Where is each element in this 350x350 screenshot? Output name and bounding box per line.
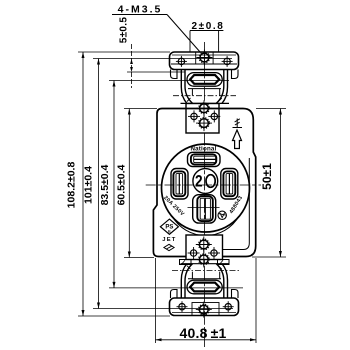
top obround mounting hole inner <box>190 75 219 84</box>
svg-text:108.2±0.8: 108.2±0.8 <box>66 162 78 209</box>
svg-text:2: 2 <box>195 172 203 191</box>
strap end tab right <box>232 70 239 79</box>
top terminal block <box>186 104 219 134</box>
bottom strap end tab right <box>232 290 239 299</box>
dim 40.8±1 bottom <box>156 258 257 343</box>
right slot outer <box>221 169 238 200</box>
top strap screw 4-M3.5 <box>196 50 212 66</box>
bottom obround mounting hole inner <box>190 283 219 292</box>
bottom obround verticals right <box>219 272 221 279</box>
left slot middle <box>173 171 185 196</box>
PSE diamond <box>160 219 178 234</box>
leader underline 2±0.8 <box>190 30 223 32</box>
top slot inner <box>194 156 216 162</box>
leader line to screw <box>167 15 201 53</box>
strap inner top line <box>172 54 236 56</box>
left slot inner <box>176 174 183 194</box>
center rating circle <box>193 169 218 194</box>
svg-text:5±0.5: 5±0.5 <box>118 17 129 44</box>
rating digit 0 ring <box>206 175 215 188</box>
bottom yoke wing left outer <box>181 264 187 298</box>
strap hole left <box>176 56 187 67</box>
strap hump right edge <box>212 52 214 64</box>
bottom block big screw upper <box>196 237 212 253</box>
top wing hatch left <box>187 98 191 102</box>
top block big screw upper <box>196 100 212 116</box>
bottom yoke wing right inner <box>216 264 224 298</box>
top obround mounting hole outer <box>187 73 222 87</box>
svg-text:JET: JET <box>162 237 176 243</box>
receptacle face circle <box>162 144 250 232</box>
bottom block small screw left <box>188 247 200 259</box>
up-arrow marking small flag <box>233 119 243 128</box>
bottom slot midline <box>204 198 206 219</box>
bottom yoke dash-dot line <box>172 269 240 271</box>
receptacle body outline <box>153 109 255 257</box>
extension line y72 <box>127 71 185 73</box>
dim line 50±1 right <box>252 109 286 258</box>
top block small screw left <box>188 110 200 122</box>
bottom strap hole left <box>177 301 188 312</box>
strap hump left edge <box>195 52 197 64</box>
top yoke flange line <box>181 102 230 104</box>
bottom strap screw <box>196 302 212 318</box>
top yoke dash-dot line <box>173 95 236 97</box>
dim line 83.5 <box>99 81 243 288</box>
bottom strap hump rect <box>192 303 219 316</box>
bottom block small screw right <box>208 247 220 259</box>
bottom slot inner <box>200 198 210 219</box>
top yoke wing left outer <box>181 70 187 104</box>
bottom block side tab right <box>218 260 230 265</box>
dimension line 5±0.5 <box>131 44 133 88</box>
body inner plateau line right <box>223 158 250 250</box>
leader underline 4-M3.5 <box>112 14 167 16</box>
plate line above bottom obround <box>188 278 221 280</box>
top block big screw lower <box>196 115 212 131</box>
right slot middle <box>223 171 235 196</box>
strap inner bottom line <box>171 63 237 65</box>
bottom yoke flange line <box>181 263 230 265</box>
bottom terminal block <box>186 235 223 260</box>
bottom block side tab left <box>180 260 192 265</box>
bottom slot outer <box>193 195 216 223</box>
extension line right 2±0.8 <box>218 31 220 53</box>
bottom wing hatch right <box>218 266 222 270</box>
dim line 60.5 <box>115 109 157 258</box>
top block small screw right <box>208 110 220 122</box>
right slot inner <box>226 174 233 194</box>
top yoke wing left inner <box>185 70 193 104</box>
bottom strap inner line <box>172 312 236 314</box>
obround lower verticals left <box>191 89 193 96</box>
top slot middle <box>191 154 216 164</box>
right slot midline <box>228 174 230 194</box>
circled mark <box>218 211 226 219</box>
bottom slot middle <box>197 196 213 221</box>
top slot outer <box>188 152 221 166</box>
svg-text:83.5±0.4: 83.5±0.4 <box>99 164 111 205</box>
svg-text:60.5±0.4: 60.5±0.4 <box>115 164 127 205</box>
centerline vertical <box>203 42 205 347</box>
left slot midline <box>178 174 180 194</box>
dim line 108.2 <box>66 52 171 316</box>
centerline horizontal <box>146 184 261 186</box>
dim line 101 <box>83 59 234 309</box>
bottom strap end tab left <box>171 290 178 299</box>
svg-text:50±1: 50±1 <box>260 163 274 190</box>
bottom block big screw lower <box>196 251 212 267</box>
bottom yoke wing right outer <box>222 264 228 298</box>
bottom strap hole right <box>223 301 234 312</box>
svg-text:40.8±1: 40.8±1 <box>180 325 227 341</box>
bottom obround verticals left <box>191 272 193 279</box>
bottom slot center tick <box>188 207 220 209</box>
svg-text:National: National <box>190 146 216 153</box>
top mounting strap <box>170 52 239 70</box>
strap hole right <box>222 56 233 67</box>
bottom wing hatch left <box>187 266 191 270</box>
svg-text:101±0.4: 101±0.4 <box>83 166 95 204</box>
face inner bottom arc <box>172 216 239 236</box>
arrow down 5±0.5 <box>130 67 133 72</box>
top wing hatch right <box>218 98 222 102</box>
plate line below obround <box>188 88 221 90</box>
up-arrow marking hollow arrow <box>233 130 242 149</box>
svg-text:4-M3.5: 4-M3.5 <box>118 4 163 16</box>
top yoke wing right inner <box>216 70 224 104</box>
top yoke wing right outer <box>222 70 228 104</box>
extension line left 2±0.8 <box>189 31 191 53</box>
left slot outer <box>171 169 188 200</box>
svg-text:E: E <box>168 229 171 234</box>
obround lower verticals right <box>219 89 221 96</box>
top slot midline <box>194 158 216 160</box>
arrow up 5±0.5 <box>130 59 133 64</box>
bottom mounting strap <box>170 298 239 316</box>
strap end tab left <box>171 70 178 79</box>
small diamond mark <box>164 244 174 250</box>
bottom yoke wing left inner <box>185 264 193 298</box>
bottom obround mounting hole outer <box>187 280 222 294</box>
